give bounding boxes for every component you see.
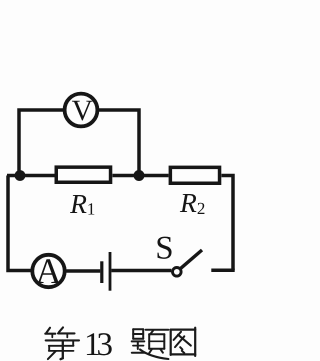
svg-text:R1: R1 xyxy=(69,188,95,219)
svg-text:S: S xyxy=(155,231,173,267)
ammeter A xyxy=(32,251,64,291)
voltmeter V xyxy=(65,94,98,128)
svg-text:V: V xyxy=(72,95,93,127)
resistor R1 xyxy=(56,167,110,219)
wire: switch right contact to right edge xyxy=(211,269,234,273)
caption: character 图 xyxy=(171,328,196,356)
wire: battery to switch pivot xyxy=(111,269,171,273)
wire: right edge from R2 down to bottom row xyxy=(222,176,234,271)
svg-text:3: 3 xyxy=(97,327,114,361)
wire: voltmeter to top-right corner and vertical down to node B xyxy=(99,110,139,172)
svg-text:A: A xyxy=(36,251,62,291)
caption: character 第 xyxy=(45,327,79,359)
node A (junction dot) xyxy=(15,170,26,181)
caption: character 题 xyxy=(132,329,169,359)
switch S xyxy=(155,231,202,277)
battery cell: short negative plate xyxy=(100,261,103,283)
wire: between R1 and R2 through node B xyxy=(113,174,169,178)
wire: left edge of main loop xyxy=(8,176,31,271)
wire: voltmeter branch left vertical and top-left corner xyxy=(19,110,63,177)
wire: main middle row left segment xyxy=(7,174,55,178)
wire: ammeter to battery xyxy=(67,269,101,273)
svg-text:R2: R2 xyxy=(179,187,205,218)
resistor R2 xyxy=(170,167,219,218)
battery cell: long positive plate xyxy=(109,252,112,291)
node B (junction dot) xyxy=(134,170,145,181)
